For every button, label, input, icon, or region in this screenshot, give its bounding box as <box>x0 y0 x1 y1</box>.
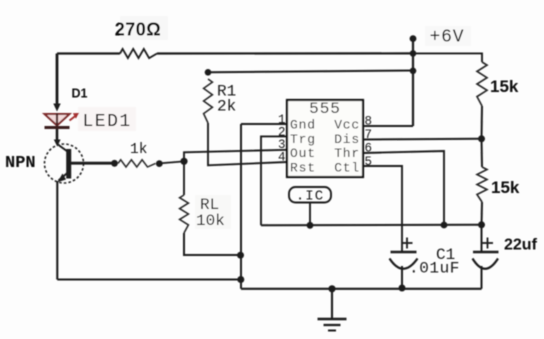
capacitor C1 top plate <box>391 251 417 254</box>
svg-text:1k: 1k <box>130 142 147 158</box>
wire IC pointer <box>309 203 311 226</box>
wire to 15k lower <box>481 139 484 167</box>
resistor 15k upper <box>477 62 487 106</box>
op-amp 555 IC body <box>287 100 363 177</box>
transistor Q1 circle <box>45 144 84 183</box>
wire ground stub <box>331 289 333 319</box>
wire R1 bottom to Rst pin4 <box>208 123 287 165</box>
wire mid bus <box>261 224 482 226</box>
wire Vcc pin8 <box>363 125 413 127</box>
IC label box <box>289 187 331 203</box>
wire bottom bus right <box>241 288 482 290</box>
wire emitter vertical <box>56 181 58 280</box>
svg-text:Thr: Thr <box>334 146 360 161</box>
resistor R1 2k <box>204 79 213 123</box>
resistor 270ohm <box>120 49 157 58</box>
wire Ctl pin5 <box>363 166 402 251</box>
wire C1 bottom <box>401 266 403 289</box>
wire Gnd vertical down <box>240 124 242 289</box>
wire 22uf bottom <box>481 266 483 289</box>
junction dot bus jog <box>237 276 244 283</box>
ground symbol <box>318 319 347 331</box>
arrowhead collector <box>54 140 61 147</box>
svg-text:LED1: LED1 <box>83 112 132 132</box>
svg-text:22uf: 22uf <box>504 237 538 254</box>
junction dot 1k left <box>111 160 118 167</box>
svg-text:555: 555 <box>309 100 341 118</box>
junction dot Dis 15k <box>478 135 485 142</box>
svg-text:NPN: NPN <box>5 154 36 173</box>
junction dot ground tap <box>328 285 335 292</box>
wire 15k upper bottom <box>481 106 484 139</box>
capacitor C1 plus sign <box>402 238 413 249</box>
LED D1 cathode bar <box>45 126 70 129</box>
junction dot 15k bottom <box>478 221 485 228</box>
LED D1 triangle <box>45 114 70 126</box>
capacitor 22uf plus sign <box>482 238 493 249</box>
svg-text:Trg: Trg <box>290 132 316 147</box>
transistor Q1 emitter arrowhead <box>58 174 67 183</box>
transistor Q1 emitter lead <box>59 172 69 181</box>
wire RL bottom <box>184 233 241 255</box>
node +6V terminal <box>410 35 417 42</box>
junction dot IC pointer <box>307 222 314 229</box>
capacitor C1 bottom plate <box>390 259 418 269</box>
wire bottom bus left <box>57 278 241 280</box>
resistor 1k <box>118 160 156 167</box>
svg-text:Rst: Rst <box>290 161 316 176</box>
svg-text:Out: Out <box>290 146 316 161</box>
wire LED cathode to transistor collector <box>56 129 59 141</box>
svg-text:Vcc: Vcc <box>334 118 360 133</box>
junction dot rail top <box>410 50 417 57</box>
wire 1k to node <box>159 161 184 163</box>
capacitor 22uf top plate <box>473 251 499 254</box>
svg-text:D1: D1 <box>72 87 88 101</box>
wire top rail left segment <box>57 52 120 54</box>
transistor Q1 base bar <box>66 149 71 179</box>
svg-text:.IC: .IC <box>296 189 324 205</box>
wire +6V vertical <box>412 39 414 126</box>
resistor 15k lower <box>477 167 487 202</box>
svg-text:2k: 2k <box>217 98 236 116</box>
svg-text:15k: 15k <box>491 178 520 197</box>
scan noise background <box>78 16 471 229</box>
svg-text:270Ω: 270Ω <box>115 20 161 40</box>
junction dot C1 bottom <box>399 285 406 292</box>
svg-text:10k: 10k <box>196 212 225 230</box>
svg-text:+6V: +6V <box>430 28 465 48</box>
wire Gnd pin1 left <box>241 123 287 125</box>
svg-text:Ctl: Ctl <box>334 161 360 176</box>
svg-text:Gnd: Gnd <box>290 118 316 133</box>
junction dot R1 top <box>205 69 212 76</box>
junction dot RL bottom <box>237 252 244 259</box>
wire rail to 15k top <box>413 53 482 62</box>
capacitor 22uf bottom plate <box>473 259 499 269</box>
wire 22uf top <box>481 225 483 251</box>
wire left vertical to LED anode <box>56 54 59 109</box>
junction dot rail R1 <box>410 68 417 75</box>
transistor Q1 collector lead <box>57 144 67 152</box>
svg-text:4: 4 <box>278 151 286 165</box>
junction dot base node <box>180 158 187 165</box>
svg-text:.01uF: .01uF <box>409 260 460 278</box>
wire 15k lower bottom <box>481 202 484 225</box>
wire node up to Out pin3 <box>184 150 287 162</box>
wire R1 top to +6V rail <box>208 71 413 73</box>
wire node down to RL <box>183 161 185 195</box>
LED light arrow <box>70 113 80 121</box>
junction dot 1k right <box>156 160 163 167</box>
wire Trg pin2 to mid bus <box>261 136 287 225</box>
wire Dis pin7 to 15k junction <box>363 138 482 141</box>
wire base lead <box>71 162 115 165</box>
resistor RL 10k <box>180 195 189 233</box>
wire top rail right segment <box>157 52 413 54</box>
svg-text:15k: 15k <box>490 77 519 96</box>
junction dot Thr bus <box>441 222 448 229</box>
arrowhead on LED anode wire <box>53 104 60 112</box>
wire Thr pin6 <box>363 151 444 225</box>
svg-text:Dis: Dis <box>334 132 360 147</box>
